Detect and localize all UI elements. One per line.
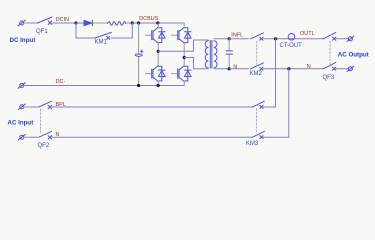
transistor Q1 (IGBT top-left): [146, 28, 166, 43]
svg-text:N: N: [233, 64, 237, 70]
wire bridge right leg: [183, 23, 185, 86]
relay contact KM1: [95, 32, 111, 39]
wire BPL line: [24, 106, 31, 108]
svg-text:DC Input: DC Input: [10, 37, 36, 44]
wire QF3 top to terminal: [336, 38, 349, 40]
junction DCIN node: [74, 21, 77, 24]
wire KM1 bypass branch: [76, 23, 132, 38]
wire N junction to KM3 bottom vertical: [288, 69, 290, 137]
relay contact KM2 top: [251, 33, 264, 40]
wire KM2 to CT: [263, 38, 323, 40]
svg-text:AC Output: AC Output: [338, 51, 369, 58]
wire DCBUS rail top: [132, 22, 184, 24]
wire secondary top to INFL node: [214, 38, 229, 40]
relay contact KM2 bottom: [251, 63, 264, 70]
junction INFL: [228, 37, 231, 40]
junction N (secondary bottom): [228, 67, 231, 70]
junction N to KM3: [287, 67, 290, 70]
terminal AC Input N: [18, 134, 25, 140]
breaker QF3 linkage: [329, 41, 331, 65]
terminal AC Output L: [347, 36, 354, 41]
wire N to KM2 bottom: [229, 68, 248, 70]
wire KM3 bottom to N vertical: [263, 136, 288, 138]
svg-text:QF1: QF1: [36, 29, 48, 35]
terminal DC Input -: [18, 83, 25, 89]
svg-text:DCBUS: DCBUS: [139, 16, 159, 22]
transformer T1 core: [210, 41, 212, 69]
breaker QF2 linkage: [40, 109, 42, 134]
wire bridge left leg: [157, 23, 159, 86]
wire DCIN to diode: [76, 22, 84, 24]
svg-text:KM1: KM1: [95, 40, 108, 46]
svg-text:KM3: KM3: [246, 141, 259, 147]
wire QF3 bottom to terminal: [336, 68, 349, 70]
wire left leg mid to transformer primary top: [158, 40, 208, 51]
junction DC- left leg: [157, 84, 160, 87]
svg-text:CT-OUT: CT-OUT: [280, 43, 303, 49]
transistor Q4 (IGBT bottom-right): [172, 66, 192, 81]
junction bypass rejoin: [131, 21, 134, 24]
wire QF1 to node DCIN: [52, 22, 76, 24]
junction DC- cap: [137, 84, 140, 87]
wire INFL to KM2: [229, 38, 248, 40]
capacitor C2 (output filter): [226, 39, 232, 69]
pin diode to inductor: [93, 22, 108, 24]
svg-text:QF3: QF3: [323, 75, 335, 81]
svg-text:KM2: KM2: [250, 71, 263, 77]
wire right leg mid to transformer primary bottom: [184, 58, 208, 69]
svg-text:QF2: QF2: [38, 143, 50, 149]
junction OUTL tap: [274, 37, 277, 40]
terminal AC Input L: [18, 104, 25, 110]
terminal AC Output N: [347, 66, 354, 71]
terminal DC Input + (QF1 left): [18, 20, 25, 26]
diode D1: [84, 20, 92, 25]
wire terminal to QF1: [24, 22, 31, 24]
svg-text:DCIN: DCIN: [56, 17, 69, 23]
transformer T1 secondary winding: [214, 41, 217, 68]
wire N line to QF3 bottom: [263, 68, 323, 70]
transistor Q2 (IGBT top-right): [172, 28, 192, 43]
current transformer CT-OUT: [288, 34, 295, 41]
junction cap rail: [137, 21, 140, 24]
svg-text:OUTL: OUTL: [300, 31, 315, 37]
wire N input line: [24, 136, 31, 138]
capacitor C1 (DC bus electrolytic): [135, 23, 143, 86]
transistor Q3 (IGBT bottom-left): [146, 66, 166, 81]
inductor L1 (DC choke): [108, 22, 126, 26]
relay KM3 linkage: [256, 109, 258, 132]
breaker QF3 top pole: [323, 32, 335, 40]
transformer T1 primary winding: [205, 41, 208, 68]
wire secondary bottom to N node: [214, 68, 229, 70]
wire OUTL to KM3 top vertical: [275, 39, 277, 107]
svg-text:DC-: DC-: [56, 79, 66, 85]
breaker QF1: [38, 17, 53, 25]
junction left leg mid: [157, 50, 160, 53]
relay KM2 linkage: [256, 41, 258, 65]
breaker QF3 bottom pole: [323, 62, 335, 70]
wire KM3 top to OUTL vertical: [263, 106, 275, 108]
svg-text:N: N: [307, 64, 311, 70]
wire DC- rail: [24, 85, 184, 87]
svg-text:INFL: INFL: [231, 32, 243, 38]
junction right leg mid: [183, 56, 186, 59]
wire N to KM3 bottom: [52, 136, 253, 138]
pin inductor to node: [126, 22, 133, 24]
relay contact KM3 top: [253, 101, 265, 108]
breaker QF2 bottom pole: [39, 131, 52, 139]
relay contact KM3 bottom: [253, 131, 265, 138]
svg-text:AC Input: AC Input: [8, 120, 34, 127]
breaker QF2 top pole: [39, 101, 52, 109]
junction left leg top: [156, 21, 159, 24]
wire BPL to KM3: [52, 106, 253, 108]
